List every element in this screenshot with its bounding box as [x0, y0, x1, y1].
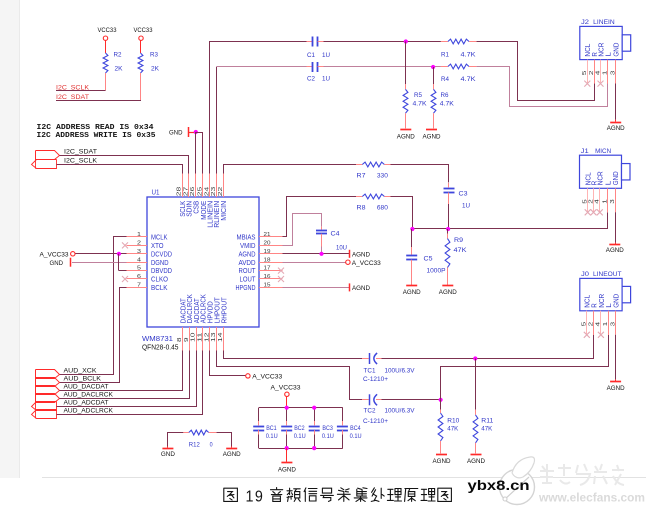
svg-text:AGND: AGND — [607, 125, 625, 132]
svg-text:R7: R7 — [357, 173, 366, 180]
svg-text:16: 16 — [264, 274, 271, 280]
node junction BC2 bottom — [285, 446, 289, 450]
svg-text:1000P: 1000P — [427, 268, 446, 275]
wire AUD_ADCDAT to pin10 — [57, 351, 197, 407]
port AUD_DACDAT (harness connector) — [36, 386, 60, 395]
svg-text:11: 11 — [198, 333, 204, 343]
svg-text:TC1: TC1 — [364, 368, 376, 375]
svg-text:9: 9 — [255, 489, 263, 506]
svg-text:AGND: AGND — [439, 289, 457, 296]
svg-text:4: 4 — [596, 322, 602, 327]
U1 pin 2 XTO stub (left) — [127, 245, 148, 247]
connector J2 pin 5 stub — [587, 60, 589, 84]
svg-text:AGND: AGND — [223, 451, 241, 458]
connector J2 pin 3 stub — [615, 60, 617, 84]
wire C3 down to mic junction — [448, 204, 450, 229]
power port A_VCC33 at pin18 — [346, 260, 350, 264]
svg-text:100U/6.3V: 100U/6.3V — [385, 408, 416, 415]
svg-text:www.elecfans.com: www.elecfans.com — [538, 493, 645, 505]
svg-text:I2C_SDAT: I2C_SDAT — [56, 94, 89, 101]
node junction TC1/R11 — [473, 356, 477, 360]
wire J0 GND pin to AGND — [615, 335, 617, 380]
svg-text:QFN28-0.45: QFN28-0.45 — [142, 345, 179, 352]
connector J0 jack bump — [622, 286, 631, 302]
svg-text:2K: 2K — [115, 66, 124, 73]
svg-text:A_VCC33: A_VCC33 — [40, 251, 69, 258]
svg-text:3: 3 — [610, 199, 616, 204]
no-connect J2 pin NCL — [584, 81, 590, 87]
port AUD_XCK (harness connector) — [36, 370, 60, 379]
connector J1 pin 1 stub — [607, 188, 609, 212]
svg-text:10: 10 — [191, 333, 197, 343]
connector J2 pin 1 stub — [607, 60, 609, 84]
connector J0 pin 2 stub — [593, 311, 595, 335]
svg-text:47K: 47K — [447, 426, 459, 433]
U1 pin 22 MICIN stub (top) — [223, 174, 225, 198]
capacitor TC1 100U/6.3V polarized — [362, 358, 369, 360]
power port VCC33 (for R2) — [103, 36, 107, 40]
svg-text:1: 1 — [137, 232, 141, 238]
ground AGND below J0 — [610, 381, 621, 383]
svg-text:1U: 1U — [322, 52, 330, 59]
svg-text:8: 8 — [177, 338, 183, 343]
wire pin23 RLINEIN up to C2 line — [216, 67, 218, 174]
svg-text:4: 4 — [595, 71, 601, 76]
svg-text:0.1U: 0.1U — [322, 433, 334, 440]
svg-text:AUD_BCLK: AUD_BCLK — [64, 375, 102, 382]
svg-text:0.1U: 0.1U — [266, 433, 278, 440]
wire A_VCC33 to BC bank top rail — [286, 396, 288, 407]
svg-text:MICN: MICN — [595, 148, 611, 155]
node junction TC2/R10 — [439, 398, 443, 402]
wire TC1 to J0 pin R — [382, 335, 594, 359]
node junction R8/C5 — [410, 227, 414, 231]
svg-text:R12: R12 — [189, 441, 200, 448]
svg-text:GND: GND — [161, 451, 175, 458]
svg-text:20: 20 — [264, 241, 271, 247]
resistor R5 4.7K — [405, 42, 407, 85]
wire pin19 AGND to ground terminal — [283, 253, 350, 255]
svg-text:13: 13 — [211, 333, 217, 343]
wire pin22 MICIN up to R7 line — [224, 165, 357, 174]
svg-text:9: 9 — [184, 338, 190, 343]
svg-text:R2: R2 — [114, 52, 122, 59]
capacitor BC4 0.1U — [342, 408, 344, 421]
svg-text:1: 1 — [602, 71, 608, 76]
svg-text:I2C ADDRESS WRITE IS 0x35: I2C ADDRESS WRITE IS 0x35 — [37, 132, 156, 140]
wire BC bank bottom rail — [259, 448, 343, 450]
watermark logo circle — [500, 470, 535, 505]
wire pin13 LHPOUT to TC2 — [217, 351, 363, 400]
sheet border vertical line — [19, 0, 21, 478]
no-connect J0 pin NCL — [584, 332, 590, 338]
svg-text:R11: R11 — [481, 418, 493, 425]
watermark text elecfans (light) — [540, 464, 624, 485]
connector J2 pin 4 stub — [600, 60, 602, 84]
svg-text:15: 15 — [264, 283, 271, 289]
svg-text:AUD_DACDAT: AUD_DACDAT — [64, 383, 109, 390]
U1 pin 4 DGND stub (left) — [127, 262, 148, 264]
svg-text:RHPOUT: RHPOUT — [219, 297, 228, 323]
svg-text:330: 330 — [377, 173, 388, 180]
svg-text:GND: GND — [612, 293, 621, 307]
no-connect pin17 ROUT — [278, 268, 284, 274]
svg-text:47K: 47K — [481, 426, 493, 433]
svg-text:TC2: TC2 — [364, 408, 376, 415]
wire R7 to C3 — [391, 165, 449, 183]
svg-text:14: 14 — [218, 331, 224, 342]
ground AGND below R10 — [436, 454, 447, 456]
connector J0 pin 1 stub — [608, 311, 610, 335]
wire pin21 MBIAS to R8 line — [283, 197, 357, 237]
svg-text:AGND: AGND — [433, 458, 451, 465]
no-connect J1 pin NCL — [585, 209, 591, 215]
wire net I2C_SCLK stub to R2 — [56, 90, 106, 92]
svg-text:R3: R3 — [150, 52, 158, 59]
svg-text:MICIN: MICIN — [219, 201, 228, 221]
U1 pin 15 HPGND stub (right) — [259, 287, 283, 289]
U1 pin 13 LHPOUT stub (bottom) — [216, 327, 218, 351]
svg-text:27: 27 — [183, 187, 189, 197]
wire R1 to J2 pin R — [477, 42, 595, 101]
svg-text:C-1210+: C-1210+ — [363, 418, 388, 425]
U1 pin 6 CLKO stub (left) — [127, 278, 148, 280]
wire R12 to AGND — [217, 433, 232, 447]
op-amp U1 codec WM8731 body — [147, 197, 259, 327]
wire pin3 DCVDD to A_VCC33 — [75, 253, 127, 255]
ground AGND below J1 — [609, 244, 620, 246]
wire I2C_SCLK to pin28 SCLK — [57, 165, 183, 174]
wire net I2C_SDAT stub to R3 — [56, 100, 141, 102]
svg-text:4: 4 — [595, 199, 601, 204]
U1 pin 19 AGND stub (right) — [259, 253, 283, 255]
svg-text:6: 6 — [137, 274, 141, 280]
svg-text:1: 1 — [603, 322, 609, 327]
svg-text:5: 5 — [582, 322, 588, 327]
ground AGND terminal at pin19 — [349, 250, 351, 258]
svg-text:A_VCC33: A_VCC33 — [352, 260, 381, 267]
svg-text:AGND: AGND — [397, 134, 415, 141]
U1 pin 12 HPVDD stub (bottom) — [209, 327, 211, 351]
U1 pin 1 MCLK stub (left) — [127, 236, 148, 238]
power port A_VCC33 at pin3 — [71, 252, 75, 256]
svg-text:1: 1 — [246, 489, 254, 506]
svg-text:C2: C2 — [307, 76, 315, 83]
wire C1 to R1 and R5 junction — [324, 41, 441, 43]
connector J2 pin 2 stub — [594, 60, 596, 84]
no-connect pin6 CLKO — [122, 276, 128, 282]
wire GND to pin25 MODE — [196, 133, 203, 174]
svg-text:1U: 1U — [322, 76, 330, 83]
wire J1 GND pin to AGND — [615, 212, 617, 242]
svg-text:4: 4 — [137, 257, 141, 263]
ground AGND right of R12 — [231, 446, 233, 447]
svg-text:AGND: AGND — [403, 289, 421, 296]
connector J0 pin 5 stub — [586, 311, 588, 335]
watermark logo pen stroke — [504, 477, 529, 500]
wire AUD_DACDAT to pin8 — [60, 351, 183, 391]
svg-text:680: 680 — [377, 205, 388, 212]
resistor R7 330 — [356, 164, 362, 166]
no-connect pin16 LOUT — [278, 276, 284, 282]
svg-text:AGND: AGND — [423, 134, 441, 141]
svg-text:24: 24 — [204, 186, 210, 197]
resistor R2 2K — [105, 40, 107, 53]
wire pin12 HPVDD to power port — [210, 351, 246, 376]
sheet border bottom line — [42, 477, 646, 479]
svg-text:R5: R5 — [414, 92, 422, 99]
U1 pin 28 SCLK stub (top) — [182, 174, 184, 198]
svg-text:12: 12 — [204, 333, 210, 343]
no-connect pin2 XTO — [122, 242, 128, 248]
svg-text:R1: R1 — [441, 52, 449, 59]
wire BC bank top rail — [259, 407, 343, 409]
svg-text:0.1U: 0.1U — [350, 433, 362, 440]
wire AUD_ADCLRCK to pin11 — [57, 351, 203, 415]
svg-text:3: 3 — [611, 71, 617, 76]
svg-text:7: 7 — [137, 283, 141, 289]
svg-text:4.7K: 4.7K — [461, 76, 477, 83]
capacitor BC2 0.1U — [286, 408, 288, 421]
svg-text:R4: R4 — [441, 76, 449, 83]
wire pin18 AVDD to power port — [283, 262, 346, 264]
wire pin24 LLINEIN up to C1 line — [210, 42, 307, 174]
wire R8 down to mic junction — [391, 197, 413, 229]
U1 pin 21 MBIAS stub (right) — [259, 236, 283, 238]
power port VCC33 (for R3) — [139, 36, 143, 40]
svg-text:R10: R10 — [447, 418, 459, 425]
wire I2C_SDAT to pin27 SDIN — [60, 156, 189, 174]
svg-text:BCLK: BCLK — [151, 283, 168, 292]
wire TC2 to R10 junction — [382, 399, 441, 401]
resistor R4 4.7K — [441, 66, 448, 68]
svg-text:ybx8.cn: ybx8.cn — [468, 478, 530, 494]
node junction C1/R1/R5 — [404, 39, 408, 43]
port I2C_SCLK (harness connector) — [32, 160, 57, 169]
U1 pin 9 DACLRCK stub (bottom) — [189, 327, 191, 351]
wire C4 bottom to AGND line — [321, 247, 323, 254]
U1 pin 24 LLINEIN stub (top) — [209, 174, 211, 198]
svg-text:22: 22 — [218, 187, 224, 197]
svg-text:VCC33: VCC33 — [98, 27, 117, 34]
resistor R8 680 — [356, 196, 362, 198]
capacitor C3 1U — [448, 183, 450, 187]
svg-text:GND: GND — [611, 171, 620, 185]
connector J0 pin 4 stub — [600, 311, 602, 335]
ground AGND below R9 — [442, 285, 453, 287]
svg-text:J2: J2 — [581, 19, 589, 26]
capacitor C4 10U — [321, 227, 323, 230]
connector J1 pin 3 stub — [615, 188, 617, 212]
svg-text:17: 17 — [264, 266, 271, 272]
svg-text:2K: 2K — [151, 66, 160, 73]
caption figure 19 (Chinese) — [224, 488, 452, 506]
svg-text:AUD_XCK: AUD_XCK — [64, 367, 98, 374]
svg-text:HPGND: HPGND — [236, 283, 256, 292]
wire AUD_DACLRCK to pin9 — [60, 351, 190, 399]
wire pin5 DBVDD branch — [119, 270, 127, 272]
U1 pin 14 RHPOUT stub (bottom) — [223, 327, 225, 351]
svg-text:25: 25 — [198, 187, 204, 197]
svg-text:5: 5 — [137, 266, 141, 272]
ground AGND below J2 — [610, 122, 621, 124]
wire pin14 RHPOUT to TC1 — [224, 351, 363, 359]
resistor R12 0 — [183, 432, 189, 434]
svg-text:1U: 1U — [462, 203, 470, 210]
svg-text:J1: J1 — [581, 148, 589, 155]
resistor R6 4.7K — [433, 67, 435, 84]
no-connect J0 pin NCR — [598, 332, 604, 338]
svg-text:AUD_ADCDAT: AUD_ADCDAT — [64, 399, 109, 406]
resistor R9 47K — [447, 229, 449, 234]
svg-text:AGND: AGND — [467, 458, 485, 465]
svg-text:C5: C5 — [424, 256, 433, 263]
connector J1 MICN body — [580, 155, 622, 188]
capacitor C5 1000P — [411, 229, 413, 247]
svg-text:2: 2 — [588, 199, 594, 204]
svg-text:5: 5 — [582, 71, 588, 76]
U1 pin 5 DBVDD stub (left) — [127, 270, 148, 272]
U1 pin 17 ROUT stub (right) — [259, 270, 283, 272]
capacitor TC2 100U/6.3V polarized — [362, 399, 369, 401]
wire pin7 BCLK to AUD_BCLK — [60, 288, 127, 383]
capacitor C2 1U — [307, 66, 313, 68]
no-connect J1 pin NCR — [597, 209, 603, 215]
svg-text:AUD_DACLRCK: AUD_DACLRCK — [64, 391, 114, 398]
U1 pin 16 LOUT stub (right) — [259, 278, 283, 280]
ground AGND below R5 — [400, 129, 411, 131]
svg-text:VCC33: VCC33 — [134, 27, 153, 34]
wire pin15 HPGND to ground terminal — [283, 287, 350, 289]
wire mic junction line to J1 pin L — [413, 213, 608, 229]
svg-text:0.1U: 0.1U — [294, 433, 306, 440]
connector J0 pin 3 stub — [615, 311, 617, 335]
power port A_VCC33 at pin12 — [246, 374, 250, 378]
svg-text:C1: C1 — [307, 52, 315, 59]
svg-text:1: 1 — [602, 199, 608, 204]
svg-text:C3: C3 — [459, 191, 468, 198]
svg-text:LINEIN: LINEIN — [593, 19, 615, 26]
wire DCVDD-DBVDD vertical — [118, 254, 120, 271]
svg-text:BC4: BC4 — [350, 425, 361, 432]
svg-text:AGND: AGND — [607, 385, 625, 392]
svg-text:AUD_ADCLRCK: AUD_ADCLRCK — [64, 407, 114, 414]
no-connect J1 pin R — [591, 209, 597, 215]
connector J1 jack bump — [622, 164, 631, 180]
svg-text:28: 28 — [177, 187, 183, 197]
wire I2C harness bus edge — [35, 151, 37, 169]
U1 pin 20 VMID stub (right) — [259, 245, 283, 247]
resistor R1 4.7K — [441, 41, 448, 43]
ground AGND below C5 — [406, 285, 417, 287]
resistor R11 47K — [475, 359, 477, 410]
wire pin4 DGND to ground — [72, 262, 127, 264]
ground GND left of R12 — [167, 446, 169, 447]
capacitor BC1 0.1U — [258, 408, 260, 421]
resistor R3 2K — [140, 40, 142, 53]
svg-text:2: 2 — [137, 241, 141, 247]
wire GND to pin26 CSB — [195, 132, 197, 174]
U1 pin 23 RLINEIN stub (top) — [216, 174, 218, 198]
node junction GND net — [194, 130, 198, 134]
svg-text:R8: R8 — [357, 205, 366, 212]
svg-text:19: 19 — [264, 249, 271, 255]
wire C2 line left segment — [216, 66, 306, 68]
svg-text:0: 0 — [210, 441, 213, 448]
svg-text:WM8731: WM8731 — [142, 336, 173, 343]
svg-text:23: 23 — [211, 187, 217, 197]
svg-text:C-1210+: C-1210+ — [363, 376, 388, 383]
svg-text:R9: R9 — [454, 237, 463, 244]
port AUD_DACLRCK (harness connector) — [36, 394, 60, 403]
connector J0 LINEOUT body — [580, 278, 622, 310]
svg-text:GND: GND — [612, 42, 621, 56]
wire R10 junction up and to J0 pin L — [441, 335, 609, 400]
svg-text:2: 2 — [589, 71, 595, 76]
no-connect J2 pin NCR — [598, 81, 604, 87]
svg-text:AGND: AGND — [352, 285, 370, 292]
svg-text:GND: GND — [169, 130, 183, 137]
wire pin1 MCLK to AUD_XCK — [60, 237, 127, 375]
svg-text:A_VCC33: A_VCC33 — [271, 384, 301, 391]
connector J1 pin 4 stub — [599, 188, 601, 212]
svg-text:AGND: AGND — [352, 252, 370, 259]
svg-text:3: 3 — [137, 249, 141, 255]
U1 pin 27 SDIN stub (top) — [188, 174, 190, 198]
svg-text:I2C_SCLK: I2C_SCLK — [64, 157, 98, 164]
node junction C4/AGND line — [319, 252, 323, 256]
svg-text:18: 18 — [264, 257, 271, 263]
port AUD_BCLK (harness connector) — [36, 378, 60, 387]
node junction DCVDD/DBVDD — [117, 252, 121, 256]
ground AGND terminal at pin15 — [349, 283, 351, 291]
U1 pin 3 DCVDD stub (left) — [127, 253, 148, 255]
svg-text:10U: 10U — [336, 245, 347, 252]
U1 pin 8 DACDAT stub (bottom) — [182, 327, 184, 351]
svg-text:U1: U1 — [152, 190, 160, 197]
svg-text:47K: 47K — [454, 247, 468, 254]
svg-text:AGND: AGND — [606, 247, 624, 254]
svg-text:4.7K: 4.7K — [413, 100, 428, 107]
port AUD_ADCLRCK (harness connector) — [32, 410, 57, 419]
U1 pin 10 ADCDAT stub (bottom) — [196, 327, 198, 351]
wire BC bank to AGND — [286, 448, 288, 462]
wire AUD harness bus edge — [35, 370, 37, 419]
U1 pin 25 MODE stub (top) — [202, 174, 204, 198]
ground GND at pin4 — [70, 258, 72, 267]
U1 pin 11 ADCLRCK stub (bottom) — [202, 327, 204, 351]
U1 pin 7 BCLK stub (left) — [127, 287, 148, 289]
node junction BC3 bottom — [312, 446, 316, 450]
svg-text:21: 21 — [264, 232, 271, 238]
ground AGND below R6 — [426, 129, 437, 131]
node junction BC2 top — [285, 406, 289, 410]
U1 pin 26 CSB stub (top) — [195, 174, 197, 198]
connector J2 jack bump — [622, 35, 631, 51]
capacitor BC3 0.1U — [314, 408, 316, 421]
U1 pin 18 AVDD stub (right) — [259, 262, 283, 264]
svg-text:BC1: BC1 — [266, 425, 277, 432]
svg-text:BC2: BC2 — [294, 425, 305, 432]
port I2C_SDAT (harness connector) — [36, 151, 60, 160]
svg-text:4.7K: 4.7K — [461, 52, 477, 59]
connector J1 pin 2 stub — [593, 188, 595, 212]
node junction BC3 top — [312, 406, 316, 410]
svg-text:BC3: BC3 — [322, 425, 333, 432]
node junction C3/R9 — [446, 227, 450, 231]
wire pin20 VMID to C4 — [283, 214, 322, 246]
connector J1 pin 5 stub — [587, 188, 589, 212]
